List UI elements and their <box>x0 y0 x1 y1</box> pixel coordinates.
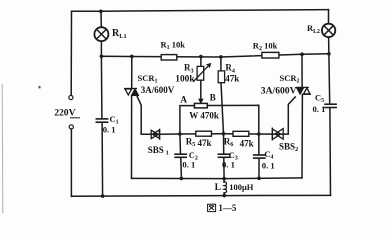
svg-text:0. 1: 0. 1 <box>182 160 195 170</box>
inductor L <box>224 179 227 196</box>
svg-text:0. 1: 0. 1 <box>222 160 235 170</box>
wire C1 lower lead <box>101 122 104 196</box>
wire C4 upper lead <box>258 134 260 155</box>
svg-text:SCR1: SCR1 <box>138 73 158 85</box>
wire C1 upper lead <box>100 56 103 118</box>
thyristor SCR1 <box>125 89 139 96</box>
wire lamp RL2 to rail <box>328 37 330 54</box>
potentiometer W body <box>194 103 207 108</box>
svg-text:100μH: 100μH <box>229 182 254 192</box>
svg-text:0. 1: 0. 1 <box>313 104 326 114</box>
wire R4 bottom lead <box>221 83 224 134</box>
wire inner bottom rail <box>132 177 303 180</box>
resistor R1 <box>161 55 177 60</box>
svg-text:R3: R3 <box>184 63 194 75</box>
svg-text:100k: 100k <box>175 74 195 84</box>
wire W terminal B <box>207 105 258 134</box>
svg-text:A: A <box>180 95 187 105</box>
wire right vertical below C5 <box>329 108 332 195</box>
wire R3 top lead <box>200 57 202 67</box>
diac SBS1 <box>151 129 160 139</box>
svg-text:R5: R5 <box>186 136 196 148</box>
wire W terminal A <box>180 106 195 134</box>
resistor R6 <box>233 131 249 136</box>
wire C3 upper lead <box>223 134 225 154</box>
capacitor C4 <box>254 155 265 158</box>
wire top rail <box>72 10 329 12</box>
node 220V upper terminal <box>69 95 73 99</box>
wire C4 lower lead <box>258 158 260 178</box>
lamp RL1 <box>94 27 108 41</box>
resistor R5 <box>196 131 212 136</box>
svg-text:3A/600V: 3A/600V <box>141 85 175 95</box>
speck <box>39 86 41 88</box>
svg-text:SBS1: SBS1 <box>148 145 169 157</box>
wire lamp RL2 stem <box>328 10 330 24</box>
node 220V lower terminal <box>69 125 73 129</box>
wire left vertical lower <box>70 129 72 196</box>
capacitor C1 <box>96 119 107 122</box>
diac SBS2 <box>272 128 283 140</box>
svg-text:C5: C5 <box>315 93 324 104</box>
svg-text:R6: R6 <box>224 136 234 148</box>
wire main rail <box>101 54 329 57</box>
svg-text:RL2: RL2 <box>307 23 320 35</box>
svg-text:3A/600V: 3A/600V <box>261 86 297 97</box>
svg-text:RL1: RL1 <box>112 28 127 40</box>
label 220V <box>54 107 80 118</box>
wire bottom rail <box>71 194 330 197</box>
wire lamp RL1 to rail <box>100 41 102 56</box>
wire SCR1 anode <box>131 56 133 88</box>
svg-text:0. 1: 0. 1 <box>103 125 116 135</box>
page edge artifact line <box>1 84 4 213</box>
svg-text:B: B <box>210 92 216 102</box>
lamp RL2 <box>322 24 335 37</box>
svg-text:SCR2: SCR2 <box>280 73 300 85</box>
wiper arrow of W <box>199 99 203 103</box>
capacitor C5 <box>325 104 336 107</box>
svg-text:SBS2: SBS2 <box>279 141 298 153</box>
svg-text:47k: 47k <box>240 138 254 148</box>
svg-text:0. 1: 0. 1 <box>262 160 275 170</box>
wire C2 upper lead <box>179 134 182 154</box>
svg-text:W 470k: W 470k <box>189 110 219 120</box>
wire left vertical upper <box>70 11 72 95</box>
svg-text:C4: C4 <box>264 150 273 161</box>
potentiometer R3 <box>194 63 211 81</box>
capacitor C2 <box>175 154 186 157</box>
svg-text:220V: 220V <box>54 107 75 118</box>
wire SCR1 cathode to inner rail <box>131 96 133 179</box>
resistor R4 <box>218 71 224 83</box>
wire C2 lower lead <box>180 158 183 179</box>
caption figure glyph 图 <box>208 204 216 211</box>
resistor R2 <box>262 52 279 58</box>
svg-text:R2 10k: R2 10k <box>253 41 278 53</box>
wire SCR2 cathode to inner rail <box>301 94 303 177</box>
svg-text:47k: 47k <box>225 73 239 83</box>
svg-text:L: L <box>215 182 221 193</box>
wire SCR2 anode <box>301 54 303 87</box>
svg-text:47k: 47k <box>198 138 212 148</box>
wire lamp RL1 stem <box>100 11 102 27</box>
svg-text:1—5: 1—5 <box>218 203 237 213</box>
wire C3 lower lead <box>223 158 225 179</box>
capacitor C3 <box>218 154 229 157</box>
svg-text:R1 10k: R1 10k <box>161 40 186 52</box>
wire R3 bottom lead / wiper arm <box>200 80 202 99</box>
wire R4 top lead <box>220 57 222 71</box>
wire SCR1 gate <box>137 96 160 135</box>
wire SCR2 gate <box>272 97 295 134</box>
wire right vertical above C5 <box>328 54 331 104</box>
wire gate rail (SBS1 to SBS2) <box>160 133 271 136</box>
thyristor SCR2 <box>297 87 311 94</box>
